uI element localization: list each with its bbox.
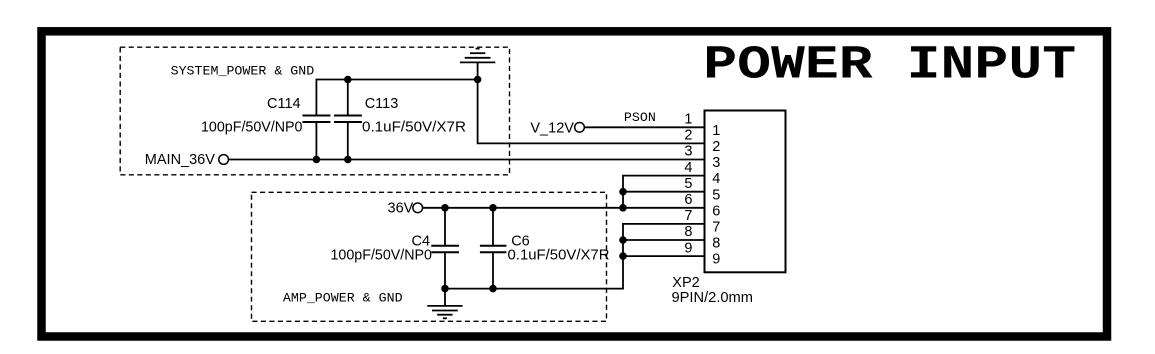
wire gnd vertical to pin2	[478, 80, 705, 144]
svg-text:5: 5	[684, 176, 692, 192]
svg-text:0.1uF/50V/X7R: 0.1uF/50V/X7R	[508, 247, 610, 263]
svg-text:100pF/50V/NP0: 100pF/50V/NP0	[201, 120, 303, 136]
node junction pin5	[619, 188, 627, 196]
node junction C114 bottom	[313, 156, 321, 164]
wire pin8 stub	[623, 239, 705, 241]
node junction C4 bottom	[441, 285, 449, 293]
svg-text:3: 3	[712, 155, 720, 171]
svg-text:9: 9	[684, 240, 692, 256]
wire C113 top stem	[347, 80, 349, 116]
svg-text:6: 6	[684, 192, 692, 208]
svg-text:C113: C113	[365, 96, 399, 112]
svg-text:PSON: PSON	[624, 110, 656, 125]
svg-text:8: 8	[684, 224, 692, 240]
svg-text:2: 2	[712, 139, 720, 155]
svg-text:POWER INPUT: POWER INPUT	[703, 39, 1076, 92]
svg-text:1: 1	[712, 123, 720, 139]
title POWER INPUT	[703, 39, 1076, 92]
svg-text:SYSTEM_POWER & GND: SYSTEM_POWER & GND	[171, 64, 315, 79]
wire pins 4-6 vertical	[623, 176, 705, 208]
wire PSON to pin1	[584, 126, 704, 128]
svg-text:MAIN_36V: MAIN_36V	[145, 152, 215, 168]
svg-text:100pF/50V/NP0: 100pF/50V/NP0	[331, 247, 433, 263]
wire pin6 stub	[623, 207, 705, 209]
connector XP2 box	[705, 111, 786, 273]
wire MAIN_36V to pin3	[229, 159, 705, 161]
capacitor C114	[303, 116, 331, 160]
svg-text:4: 4	[684, 160, 692, 176]
dashed box SYSTEM_POWER	[120, 47, 509, 175]
ground (top, system)	[460, 49, 495, 80]
node junction pin9	[619, 252, 627, 260]
node junction C6 top	[489, 204, 497, 212]
border frame	[42, 31, 1108, 336]
capacitor C113	[334, 116, 362, 160]
svg-text:9: 9	[712, 252, 720, 268]
node junction C6 bottom	[489, 285, 497, 293]
svg-text:4: 4	[712, 171, 720, 187]
node junction C4 top	[441, 204, 449, 212]
svg-text:6: 6	[712, 203, 720, 219]
svg-text:9PIN/2.0mm: 9PIN/2.0mm	[672, 290, 754, 306]
capacitor C4	[431, 208, 459, 289]
svg-text:0.1uF/50V/X7R: 0.1uF/50V/X7R	[362, 120, 466, 136]
svg-text:V_12V: V_12V	[530, 120, 574, 136]
node junction pin8	[619, 236, 627, 244]
wire 36V to pins 4-6	[423, 207, 623, 209]
svg-text:5: 5	[712, 187, 720, 203]
svg-text:8: 8	[712, 236, 720, 252]
svg-text:3: 3	[684, 144, 692, 160]
node junction C113 top	[344, 76, 352, 84]
node junction gnd top	[474, 76, 482, 84]
wire gnd top horizontal	[316, 80, 477, 116]
node junction pin6	[619, 204, 627, 212]
wire pin5 stub	[623, 191, 705, 193]
svg-text:7: 7	[684, 208, 692, 224]
wire pin9 stub	[623, 255, 705, 257]
svg-text:AMP_POWER & GND: AMP_POWER & GND	[283, 290, 403, 305]
ground (bottom, amp)	[427, 289, 462, 319]
svg-text:C114: C114	[267, 96, 301, 112]
svg-text:2: 2	[684, 128, 692, 144]
svg-text:7: 7	[712, 220, 720, 236]
dashed box AMP_POWER	[252, 192, 607, 321]
svg-text:XP2: XP2	[672, 275, 699, 291]
capacitor C6	[480, 208, 507, 289]
node junction C113 bottom	[344, 156, 352, 164]
svg-text:1: 1	[684, 112, 692, 128]
wire amp gnd bottom to pin7	[445, 224, 705, 289]
svg-text:36V: 36V	[388, 201, 414, 217]
